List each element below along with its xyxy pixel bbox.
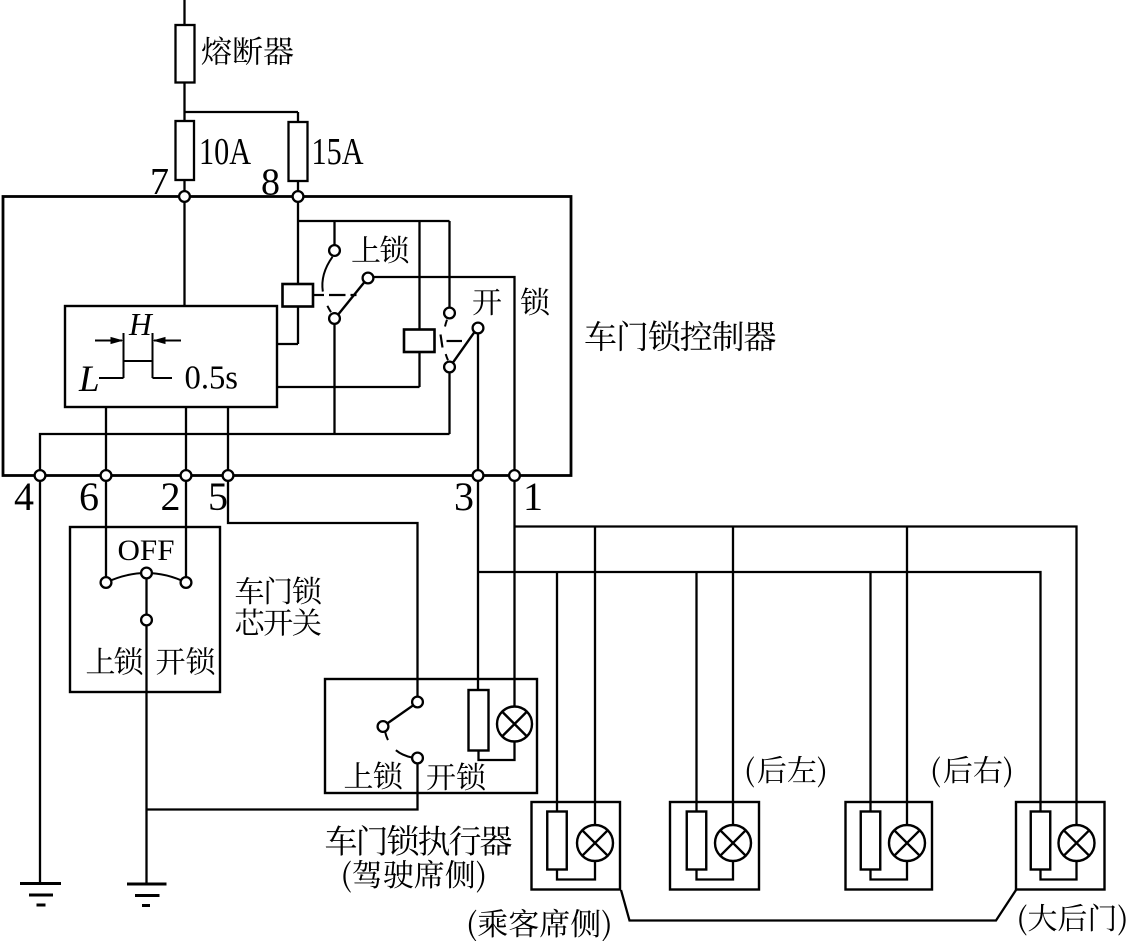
wire terminal 8 down to relay K1 coil: [297, 202, 299, 284]
svg-text:2: 2: [161, 474, 181, 519]
wire R1/L1 bottom link: [479, 741, 515, 760]
dimension arrow right: [154, 340, 181, 342]
pin label 5: [208, 474, 228, 519]
actuator switch 开锁 contact: [412, 753, 423, 764]
wire battery feed into fuse F1: [183, 0, 185, 25]
svg-text:5: 5: [208, 474, 228, 519]
wire terminal 2 to key switch: [185, 481, 187, 577]
pulse waveform: [99, 361, 172, 378]
dimension extension lines: [124, 333, 153, 378]
wire bus to rear-left resistor: [695, 572, 697, 812]
label 车门锁执行器 (door lock actuator): [326, 825, 512, 856]
wire S2 common to terminal 3: [477, 333, 479, 470]
rotary pole contact: [141, 615, 152, 626]
wire timer to terminal 2: [185, 407, 187, 470]
lamp (passenger): [577, 825, 613, 861]
terminal 2: [181, 470, 192, 481]
wire terminal 3 to driver actuator resistor: [477, 481, 479, 690]
wire resistor/lamp bottom link (tailgate): [1041, 861, 1077, 880]
fuse F1 (main fuse): [176, 25, 195, 83]
lamp (rear-right): [889, 825, 925, 861]
rotary contact 开锁 side: [181, 577, 192, 588]
svg-text:H: H: [128, 307, 154, 342]
label 10A: [199, 131, 251, 173]
wire bus to rear-left lamp: [732, 527, 734, 826]
label (大后门) (tailgate): [1019, 904, 1125, 936]
actuator switch common contact: [412, 697, 423, 708]
actuator switch travel arc: [385, 732, 412, 758]
switch S2 common contact: [473, 323, 484, 334]
rotary contact 上锁 side: [101, 577, 112, 588]
wire F3 to terminal 8: [297, 181, 299, 191]
label OFF: [118, 534, 175, 567]
resistor (tailgate): [1031, 812, 1051, 870]
ground G2: [127, 884, 167, 906]
label (后右) (rear right): [933, 756, 1011, 788]
ground G1: [20, 884, 61, 906]
wire terminal 5 to driver actuator switch: [228, 481, 418, 697]
switch S1 upper contact: [329, 245, 340, 256]
switch S1 travel arc: [322, 257, 332, 312]
label 车门锁控制器 (door lock controller): [585, 320, 775, 351]
terminal 3: [473, 470, 484, 481]
terminal 6: [101, 470, 112, 481]
label 开锁: [157, 647, 215, 675]
switch S2 upper contact: [444, 308, 455, 319]
label 15A: [312, 131, 364, 173]
wire branch to fuse F3: [185, 112, 299, 122]
wire supply rail inside controller: [298, 220, 450, 222]
label L (low level): [78, 359, 100, 400]
wire bus to passenger resistor: [556, 572, 558, 812]
lamp (tailgate): [1059, 825, 1095, 861]
actuator switch 上锁 contact: [378, 721, 389, 732]
wire rail to K2 switch upper contact: [448, 221, 450, 308]
actuator switch blade: [387, 705, 413, 723]
wire resistor/lamp bottom link (passenger): [557, 861, 595, 880]
label 开锁: [427, 762, 485, 790]
svg-text:L: L: [78, 359, 100, 400]
wire K1 coil to timer block: [277, 307, 298, 345]
wire pole to ground: [145, 625, 147, 882]
rear-right actuator box: [846, 802, 933, 890]
label 0.5s: [185, 360, 239, 397]
switch S2 lower contact: [444, 362, 455, 373]
svg-text:1: 1: [523, 474, 543, 519]
lamp (rear-left): [715, 825, 751, 861]
switch S2 blade: [453, 332, 474, 362]
resistor (rear-left): [687, 812, 707, 870]
label (后左) (rear left): [747, 756, 825, 788]
pin label 7: [150, 161, 169, 203]
wire K2 coil to timer block: [277, 352, 420, 387]
relay coil K2 开锁: [404, 330, 435, 353]
label (乘客席侧) (passenger side): [469, 909, 610, 941]
wire resistor/lamp bottom link (rear-left): [697, 861, 734, 880]
svg-text:10A: 10A: [199, 131, 251, 173]
terminal 7: [179, 191, 190, 202]
rotary contact OFF: [141, 568, 152, 579]
driver actuator box: [325, 679, 537, 793]
label (驾驶席侧) (driver side): [343, 860, 484, 893]
wire S1 lower contact to ground bus: [333, 324, 335, 434]
wire rail to K1 switch upper contact: [333, 221, 335, 245]
leader line passenger to tailgate: [621, 890, 1016, 921]
pin label 8: [261, 162, 280, 204]
lamp L1 (driver): [497, 707, 532, 742]
label 上锁 (lock): [352, 235, 408, 263]
switch S1 lower contact: [329, 313, 340, 324]
svg-text:15A: 15A: [312, 131, 364, 173]
resistor (passenger): [547, 812, 567, 870]
wire bus to rear-right resistor: [869, 572, 871, 812]
wire timer to terminal 6: [105, 407, 107, 470]
terminal 4: [35, 470, 46, 481]
controller box 车门锁控制器: [3, 197, 571, 476]
wire timer to terminal 5: [227, 407, 229, 470]
switch S1 common contact: [363, 273, 374, 284]
wire F1 to branch junction: [183, 83, 185, 122]
wire rotary to pole: [145, 578, 147, 614]
rotary switch arc: [106, 573, 186, 583]
svg-text:0.5s: 0.5s: [185, 360, 239, 397]
relay K2 armature link (dashed): [441, 335, 443, 348]
svg-text:OFF: OFF: [118, 534, 175, 567]
passenger actuator box: [532, 802, 621, 890]
wire bus terminal 1 to rear actuators: [515, 527, 1077, 825]
wire bus to passenger lamp: [594, 527, 596, 826]
wire F2 to terminal 7: [183, 180, 185, 191]
label 开 锁 (unlock): [473, 287, 549, 315]
wire S2 lower contact to ground bus: [448, 372, 450, 434]
svg-text:6: 6: [79, 474, 99, 519]
pin label 2: [161, 474, 181, 519]
wire bus terminal 3 to rear actuators: [478, 572, 1041, 812]
wire terminal 7 to timer block: [183, 202, 185, 306]
wire terminal 1 to driver actuator lamp: [513, 481, 515, 707]
rear-left actuator box: [670, 802, 759, 890]
terminal 8: [293, 191, 304, 202]
pin label 3: [454, 474, 474, 519]
pin label 1: [523, 474, 543, 519]
pin label 4: [14, 474, 34, 519]
switch S1 blade: [338, 282, 364, 314]
relay K1 armature link (dashed): [313, 294, 324, 296]
fuse F2 10A: [176, 121, 195, 180]
relay coil K1 上锁: [283, 284, 314, 307]
label 熔断器 (fuse): [202, 36, 293, 65]
label 上锁: [345, 761, 402, 789]
tailgate actuator box: [1016, 802, 1105, 890]
terminal 5: [223, 470, 234, 481]
key cylinder switch box 车门锁芯开关: [70, 527, 220, 692]
wire internal ground bus to terminal 4: [40, 434, 450, 470]
svg-text:4: 4: [14, 474, 34, 519]
fuse F3 15A: [289, 122, 308, 181]
pin label 6: [79, 474, 99, 519]
resistor (rear-right): [861, 812, 881, 870]
wire S1 common to terminal 1: [373, 277, 514, 470]
wire driver actuator switch to ground branch: [147, 763, 418, 809]
timer block box: [65, 306, 277, 407]
wire rail to relay K2 coil: [418, 221, 420, 330]
wire terminal 6 to key switch: [105, 481, 107, 577]
dimension arrow left: [95, 340, 122, 342]
label H (pulse width): [128, 307, 154, 342]
label 上锁: [87, 647, 143, 675]
resistor R1 (driver): [469, 690, 489, 751]
wire terminal 4 to ground: [39, 481, 41, 882]
label 车门锁芯开关 (key cylinder switch): [236, 576, 321, 635]
wire resistor/lamp bottom link (rear-right): [871, 861, 908, 880]
terminal 1: [509, 470, 520, 481]
switch S2 travel arc: [443, 320, 448, 361]
svg-text:3: 3: [454, 474, 474, 519]
wire bus to rear-right lamp: [906, 527, 908, 826]
